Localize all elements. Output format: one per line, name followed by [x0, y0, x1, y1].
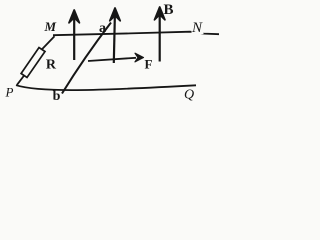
svg-text:a: a [99, 21, 106, 36]
svg-text:P: P [5, 85, 14, 100]
svg-text:b: b [53, 89, 61, 104]
svg-text:B: B [164, 2, 174, 18]
wire bottom rail P-Q [16, 85, 196, 90]
label N [192, 20, 204, 34]
field arrow 3 (B) [155, 7, 165, 62]
field arrow 1 [69, 10, 79, 60]
resistor R [21, 48, 45, 78]
rod a-b [62, 23, 111, 94]
wire top rail M-N [53, 32, 219, 36]
wire left slant P-M lower segment [17, 75, 25, 85]
wire left slant P-M upper segment [42, 36, 55, 50]
svg-text:M: M [44, 19, 57, 34]
svg-text:R: R [46, 57, 57, 72]
svg-text:N: N [191, 20, 203, 36]
field arrow 2 [110, 8, 120, 63]
svg-text:Q: Q [184, 88, 194, 103]
force arrow F [88, 53, 144, 62]
svg-text:F: F [145, 56, 153, 71]
